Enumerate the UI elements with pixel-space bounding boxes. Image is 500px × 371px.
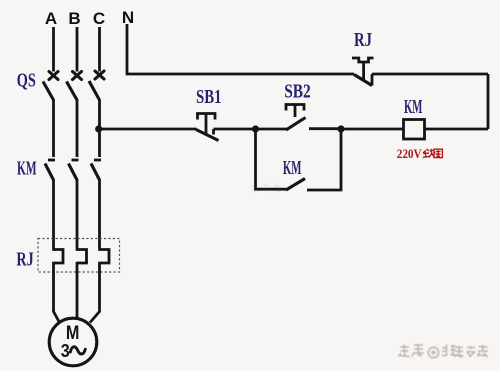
wire pole 2 QS to KM — [76, 99, 79, 157]
svg-text:QS: QS — [17, 70, 36, 92]
wire pole 1 QS to KM — [52, 99, 55, 157]
switch QS pole 3 contact cross — [95, 71, 104, 79]
contactor KM pole 3 blade — [91, 164, 100, 181]
motor sine wave — [70, 347, 85, 354]
thermal relay RJ dotted enclosure — [38, 239, 120, 273]
switch QS pole 2 blade — [67, 82, 78, 101]
wire phase A drop — [52, 27, 55, 72]
contactor KM aux branch right rise — [340, 129, 343, 190]
contactor KM aux bottom right wire — [307, 189, 342, 192]
coil KM box — [404, 120, 425, 140]
wire pole 2 KM to RJ — [76, 179, 79, 251]
wire N drop and top rail — [127, 24, 354, 74]
thermal relay RJ heater element pole 2 — [77, 250, 87, 264]
thermal relay RJ NC contact stem — [362, 62, 365, 80]
switch QS pole 2 contact cross — [73, 72, 82, 80]
wire pole 3 KM to RJ — [98, 179, 101, 251]
button SB2 stem — [294, 105, 297, 118]
wire junction to SB2 — [256, 128, 289, 131]
wire SB2 to junction — [309, 127, 341, 130]
watermark faint gray near KM aux — [252, 183, 281, 193]
thermal relay RJ heater element pole 1 — [54, 250, 64, 264]
contactor KM pole 2 blade — [69, 164, 78, 181]
thermal relay RJ heater element pole 3 — [100, 250, 110, 264]
wire pole 1 KM to RJ — [52, 179, 55, 251]
svg-text:RJ: RJ — [354, 29, 372, 51]
button SB1 NC blade — [196, 130, 219, 141]
wire right rail — [487, 74, 490, 129]
wire phase C drop — [98, 27, 101, 72]
coil value label xian glyph — [423, 149, 435, 158]
thermal relay RJ NC contact blade — [354, 75, 372, 86]
wire pole 1 RJ to motor — [54, 262, 60, 323]
node junction right of SB2 — [337, 125, 344, 132]
svg-text:SB2: SB2 — [284, 81, 311, 103]
switch QS pole 1 blade — [43, 82, 54, 101]
contactor KM aux branch bottom left wire — [254, 188, 286, 191]
coil value label quan glyph — [434, 149, 442, 157]
svg-text:C: C — [93, 9, 105, 28]
contactor KM pole 3 fixed contact tick — [94, 159, 101, 162]
switch QS pole 3 blade — [89, 81, 100, 100]
svg-text:3: 3 — [61, 340, 70, 361]
node junction left of SB2 — [252, 125, 259, 132]
svg-text:SB1: SB1 — [196, 86, 222, 108]
wire junction to KM coil — [341, 128, 404, 131]
wire pole 2 RJ to motor — [76, 262, 79, 320]
wire pole 3 RJ to motor — [90, 262, 100, 323]
wire KM coil to right rail — [425, 128, 489, 131]
wire phase B drop — [76, 27, 79, 72]
contactor KM aux NO blade — [286, 179, 305, 191]
contactor KM aux branch left drop — [254, 129, 257, 191]
switch QS pole 1 contact cross — [49, 72, 58, 80]
button SB1 right terminal drop — [212, 129, 215, 135]
contactor KM pole 1 blade — [45, 164, 54, 181]
button SB2 actuator bracket — [286, 105, 304, 111]
thermal relay RJ NC contact right terminal drop — [371, 74, 374, 86]
svg-text:A: A — [45, 9, 57, 28]
svg-text:B: B — [68, 9, 80, 28]
contactor KM pole 2 fixed contact tick — [72, 159, 79, 162]
node junction on pole 3 — [95, 125, 102, 132]
wire pole 3 QS to KM — [98, 99, 101, 157]
wire SB1 to junction — [214, 128, 256, 131]
wire control line from pole 3 to SB1 — [100, 128, 197, 131]
wire RJ contact to right rail — [372, 73, 488, 76]
button SB1 stem — [205, 114, 208, 136]
thermal relay RJ NC contact actuator notch — [352, 58, 374, 62]
button SB2 NO blade — [286, 118, 306, 131]
button SB1 actuator bracket — [198, 114, 216, 120]
contactor KM pole 1 fixed contact tick — [48, 159, 55, 162]
svg-text:KM: KM — [17, 158, 37, 180]
svg-text:RJ: RJ — [16, 249, 33, 271]
svg-text:KM: KM — [404, 96, 423, 118]
svg-text:KM: KM — [283, 157, 302, 179]
svg-text:220V: 220V — [397, 147, 422, 161]
motor M circle — [49, 318, 97, 366]
